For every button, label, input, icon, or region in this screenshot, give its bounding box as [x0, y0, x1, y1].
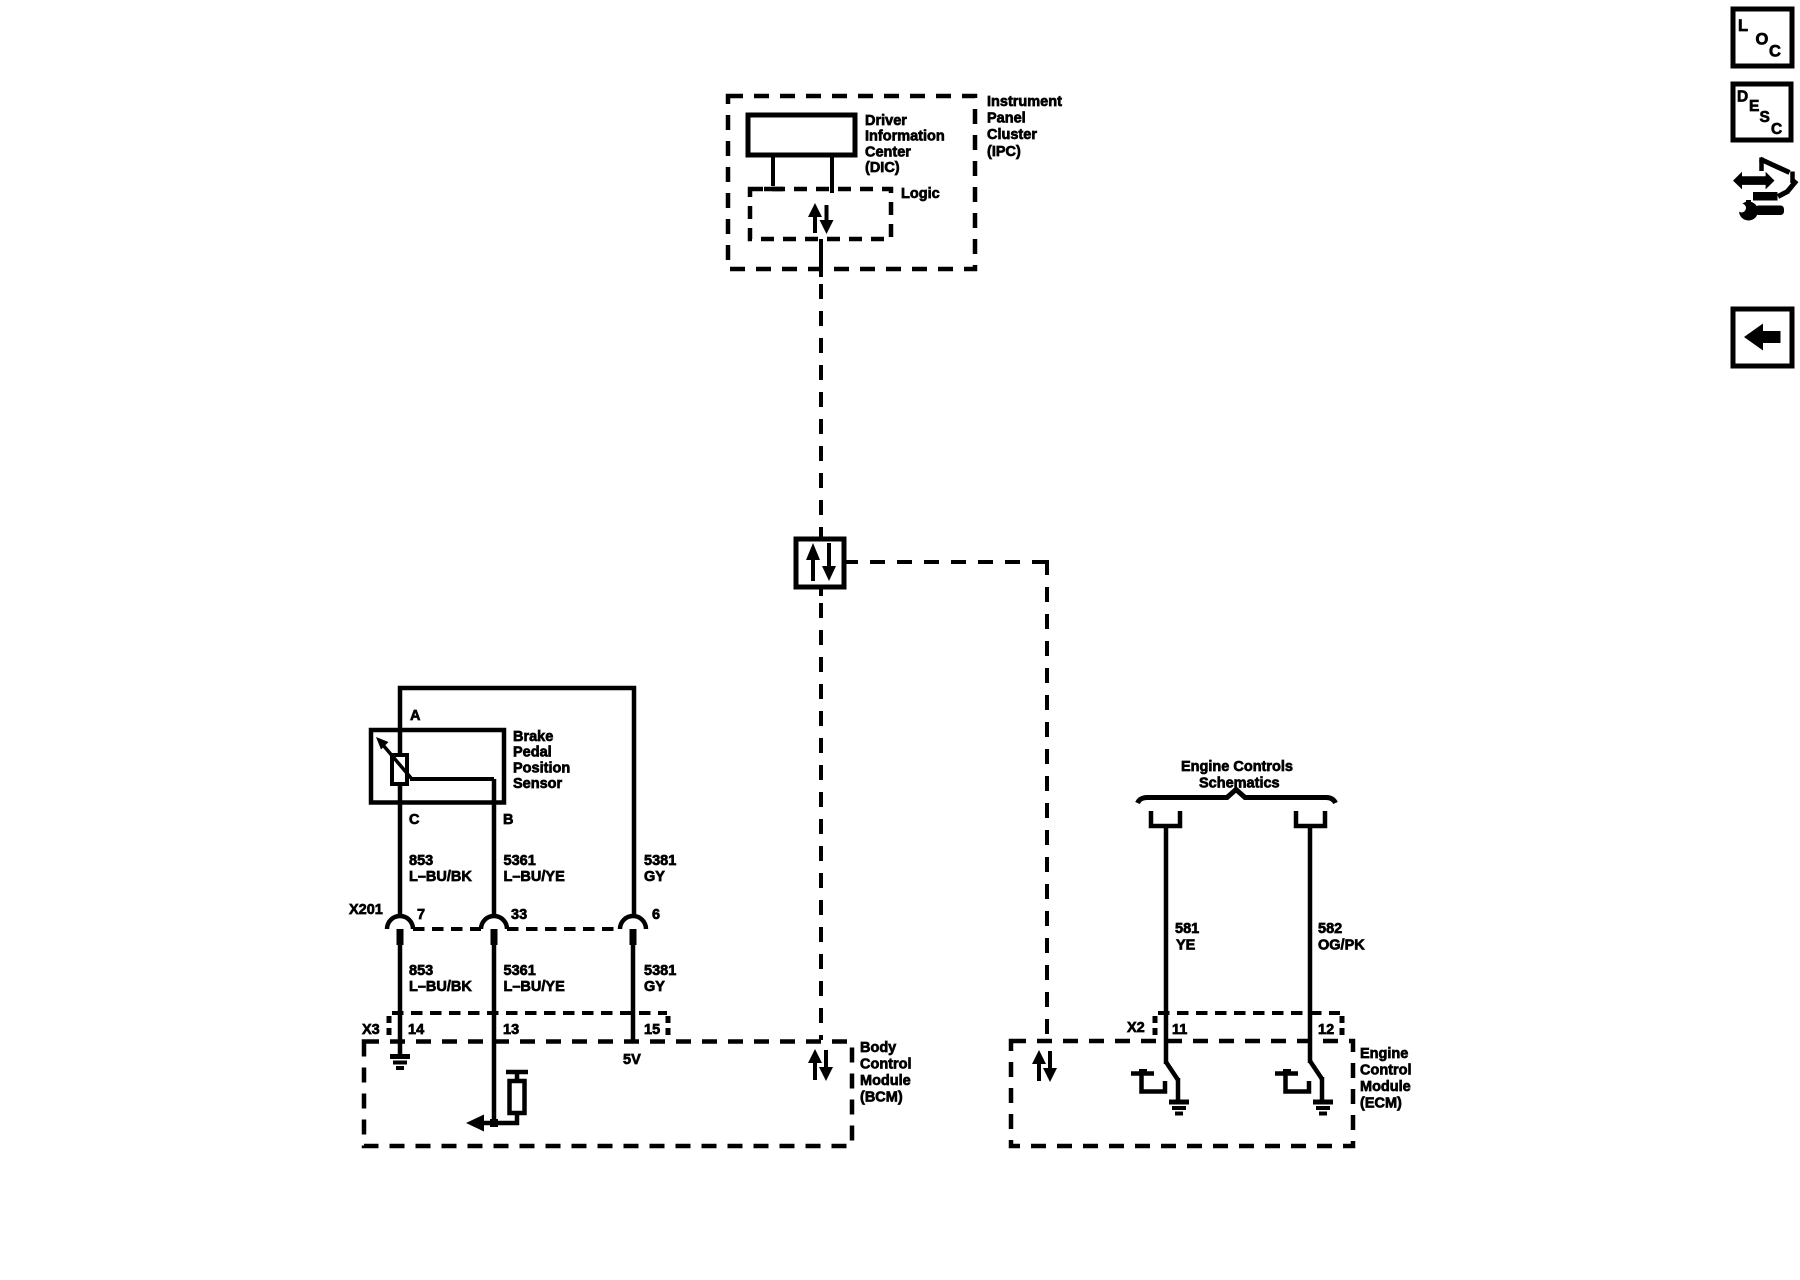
- value label: 5361 L-BU/YE (upper): [504, 853, 566, 885]
- symbol: serial data communication box (splice): [796, 539, 844, 587]
- svg-text:Control: Control: [1360, 1063, 1412, 1079]
- svg-text:C: C: [1769, 43, 1781, 61]
- svg-text:GY: GY: [644, 979, 665, 995]
- label: Instrument Panel Cluster (IPC): [987, 94, 1062, 160]
- svg-text:(IPC): (IPC): [987, 144, 1021, 160]
- svg-text:582: 582: [1318, 921, 1342, 937]
- pin 14 label: [408, 1022, 424, 1038]
- svg-text:D: D: [1737, 89, 1748, 106]
- svg-text:Instrument: Instrument: [987, 94, 1062, 110]
- connector X2: left bracket: [1153, 1016, 1158, 1037]
- wire: 5361 L-BU/YE from X201 into BCM: [492, 945, 497, 1125]
- svg-text:L: L: [1738, 17, 1748, 35]
- ground: ECM internal ground at pin 12: [1313, 1102, 1333, 1114]
- svg-text:Pedal: Pedal: [513, 745, 552, 761]
- connector X201: pin 6 half-circle: [620, 916, 646, 945]
- svg-text:B: B: [503, 812, 513, 828]
- svg-text:Module: Module: [1360, 1079, 1411, 1095]
- svg-text:L–BU/YE: L–BU/YE: [504, 869, 566, 885]
- pin 15 label: [644, 1022, 660, 1038]
- svg-text:E: E: [1749, 98, 1759, 115]
- symbol: serial data arrows inside BCM: [808, 1049, 833, 1081]
- pin 12 label: [1318, 1022, 1334, 1038]
- wire: 853 L-BU/BK pin C down to X201 pin 7: [398, 784, 403, 917]
- resistor: BCM internal pull-up: [506, 1072, 528, 1125]
- connector X3 label: [362, 1022, 380, 1038]
- svg-text:7: 7: [417, 907, 425, 923]
- potentiometer wiper arrow: [376, 737, 411, 778]
- display: Driver Information Center (DIC) rectangle: [748, 115, 855, 155]
- box: Brake Pedal Position Sensor outline: [371, 730, 504, 803]
- svg-text:33: 33: [511, 907, 527, 923]
- pin 7 label: [417, 907, 425, 923]
- wire: 5361 L-BU/YE pin B down to X201 pin 33: [492, 779, 497, 917]
- connector: off-page reference left (wire 581): [1151, 811, 1180, 826]
- svg-text:853: 853: [409, 963, 433, 979]
- connector X3: left bracket: [387, 1016, 392, 1037]
- label: Engine Controls Schematics: [1181, 759, 1293, 792]
- wire: dashed serial data line splice box right to ECM: [844, 560, 1047, 1040]
- switch: ECM internal switch at pin 11: [1131, 1062, 1178, 1102]
- svg-text:L–BU/YE: L–BU/YE: [504, 979, 566, 995]
- svg-text:Engine Controls: Engine Controls: [1181, 759, 1293, 775]
- svg-text:L–BU/BK: L–BU/BK: [409, 979, 472, 995]
- svg-text:OG/PK: OG/PK: [1318, 938, 1365, 954]
- connector X201: pin 33 half-circle: [481, 916, 507, 945]
- connector X2: dashed connector line: [1158, 1011, 1340, 1015]
- wire: dashed serial data line splice box down to BCM: [819, 587, 823, 1040]
- svg-text:YE: YE: [1176, 938, 1196, 954]
- node B: sensor pin B label: [503, 812, 513, 828]
- connector X201: dashed line pin33 to pin6: [507, 927, 620, 931]
- svg-text:15: 15: [644, 1022, 660, 1038]
- wire: 853 L-BU/BK from X201 to BCM ground: [398, 945, 403, 1054]
- value label: 5361 L-BU/YE (lower): [504, 963, 566, 995]
- svg-text:5381: 5381: [644, 963, 676, 979]
- label: Brake Pedal Position Sensor: [513, 729, 570, 792]
- connector X201: pin 7 half-circle: [387, 916, 413, 945]
- symbol: serial data arrows inside ECM: [1032, 1050, 1057, 1082]
- symbol: brace for Engine Controls Schematics reference: [1138, 790, 1336, 804]
- svg-text:X3: X3: [362, 1022, 380, 1038]
- svg-text:Information: Information: [865, 129, 945, 145]
- svg-text:12: 12: [1318, 1022, 1334, 1038]
- label: Logic: [901, 186, 940, 202]
- wire: solid stub from Logic box bottom through IPC border: [819, 239, 823, 277]
- connector X201 label: [349, 902, 383, 918]
- svg-text:C: C: [409, 812, 420, 828]
- wire: DIC left stub to Logic box: [764, 155, 783, 189]
- wire: wiper tap to pin B: [410, 777, 494, 781]
- svg-text:GY: GY: [644, 869, 665, 885]
- label: Body Control Module (BCM): [860, 1040, 912, 1106]
- connector X2 label: [1127, 1020, 1145, 1036]
- wire: 581 YE down to ECM pin 11: [1164, 828, 1169, 1064]
- label: Engine Control Module (ECM): [1360, 1046, 1412, 1112]
- svg-text:Driver: Driver: [865, 113, 907, 129]
- svg-text:Control: Control: [860, 1057, 912, 1073]
- connector: off-page reference right (wire 582): [1296, 811, 1325, 826]
- wire: dashed serial data line from IPC down to splice box: [819, 284, 823, 537]
- icon: LOC button box: [1733, 9, 1792, 66]
- svg-text:13: 13: [503, 1022, 519, 1038]
- svg-text:Center: Center: [865, 144, 911, 160]
- icon: wiring schematic reference (arrows and wrench): [1733, 158, 1797, 221]
- box: Instrument Panel Cluster (IPC) dashed outline: [728, 96, 975, 269]
- wire: DIC right stub into Logic box: [830, 155, 834, 193]
- node C: sensor pin C label: [409, 812, 420, 828]
- node A: sensor pin A label: [410, 708, 421, 724]
- symbol: serial data arrows inside splice box: [806, 543, 836, 581]
- junction: pin 13 wire and internal signal line: [490, 1119, 498, 1127]
- ground: BCM internal ground at pin 14: [390, 1057, 410, 1069]
- svg-text:6: 6: [652, 907, 660, 923]
- svg-text:X2: X2: [1127, 1020, 1145, 1036]
- connector X201: dashed line pin7 to pin33: [413, 927, 481, 931]
- symbol: serial data arrows inside Logic box: [808, 203, 834, 234]
- icon: DESC button box: [1733, 84, 1791, 140]
- svg-text:(DIC): (DIC): [865, 160, 900, 176]
- svg-text:5361: 5361: [504, 963, 536, 979]
- ground: ECM internal ground at pin 11: [1169, 1102, 1189, 1114]
- svg-text:A: A: [410, 708, 421, 724]
- svg-text:5V: 5V: [623, 1052, 641, 1068]
- svg-text:Body: Body: [860, 1040, 896, 1056]
- value label: 581 YE: [1175, 921, 1199, 954]
- svg-text:Cluster: Cluster: [987, 127, 1037, 143]
- label: 5V supply at pin 15: [623, 1052, 641, 1068]
- svg-text:(BCM): (BCM): [860, 1090, 903, 1106]
- value label: 5381 GY (lower): [644, 963, 676, 995]
- connector X2: right bracket: [1340, 1016, 1345, 1037]
- svg-text:(ECM): (ECM): [1360, 1096, 1402, 1112]
- value label: 5381 GY (upper): [644, 853, 676, 885]
- svg-text:Brake: Brake: [513, 729, 553, 745]
- value label: 582 OG/PK: [1318, 921, 1365, 954]
- connector X3: right bracket: [666, 1016, 671, 1037]
- pin 33 label: [511, 907, 527, 923]
- value label: 853 L-BU/BK (lower): [409, 963, 472, 995]
- pin 11 label: [1172, 1022, 1187, 1038]
- wire: 582 OG/PK down to ECM pin 12: [1308, 828, 1313, 1063]
- svg-text:5381: 5381: [644, 853, 676, 869]
- switch: ECM internal switch at pin 12: [1275, 1061, 1322, 1102]
- svg-text:581: 581: [1175, 921, 1199, 937]
- svg-text:Logic: Logic: [901, 186, 940, 202]
- potentiometer: sensor element body: [392, 755, 407, 784]
- svg-text:14: 14: [408, 1022, 424, 1038]
- icon: back arrow button box: [1733, 309, 1792, 366]
- svg-text:C: C: [1771, 121, 1782, 138]
- value label: 853 L-BU/BK (upper): [409, 853, 472, 885]
- label: Driver Information Center (DIC): [865, 113, 945, 176]
- svg-text:11: 11: [1172, 1022, 1187, 1038]
- svg-text:O: O: [1756, 31, 1769, 49]
- svg-text:S: S: [1760, 109, 1770, 126]
- svg-text:Engine: Engine: [1360, 1046, 1408, 1062]
- wire: BCM internal signal line with arrow: [466, 1115, 519, 1132]
- box: Engine Control Module (ECM) dashed outline: [1011, 1041, 1353, 1146]
- connector X3: dashed connector line: [392, 1011, 667, 1015]
- svg-text:Sensor: Sensor: [513, 776, 563, 792]
- svg-text:Module: Module: [860, 1073, 911, 1089]
- pin 6 label: [652, 907, 660, 923]
- box: Body Control Module (BCM) dashed outline: [364, 1042, 852, 1147]
- wire: sensor pin A up, across top, and 5381 GY down to X201 pin 6: [400, 688, 634, 917]
- wire: 5381 GY from X201 to BCM pin 15: [631, 945, 636, 1041]
- pin 13 label: [503, 1022, 519, 1038]
- svg-text:L–BU/BK: L–BU/BK: [409, 869, 472, 885]
- svg-text:X201: X201: [349, 902, 383, 918]
- box: Logic dashed outline: [750, 189, 891, 239]
- svg-text:5361: 5361: [504, 853, 536, 869]
- svg-text:Position: Position: [513, 760, 570, 776]
- svg-text:Panel: Panel: [987, 111, 1026, 127]
- svg-text:853: 853: [409, 853, 433, 869]
